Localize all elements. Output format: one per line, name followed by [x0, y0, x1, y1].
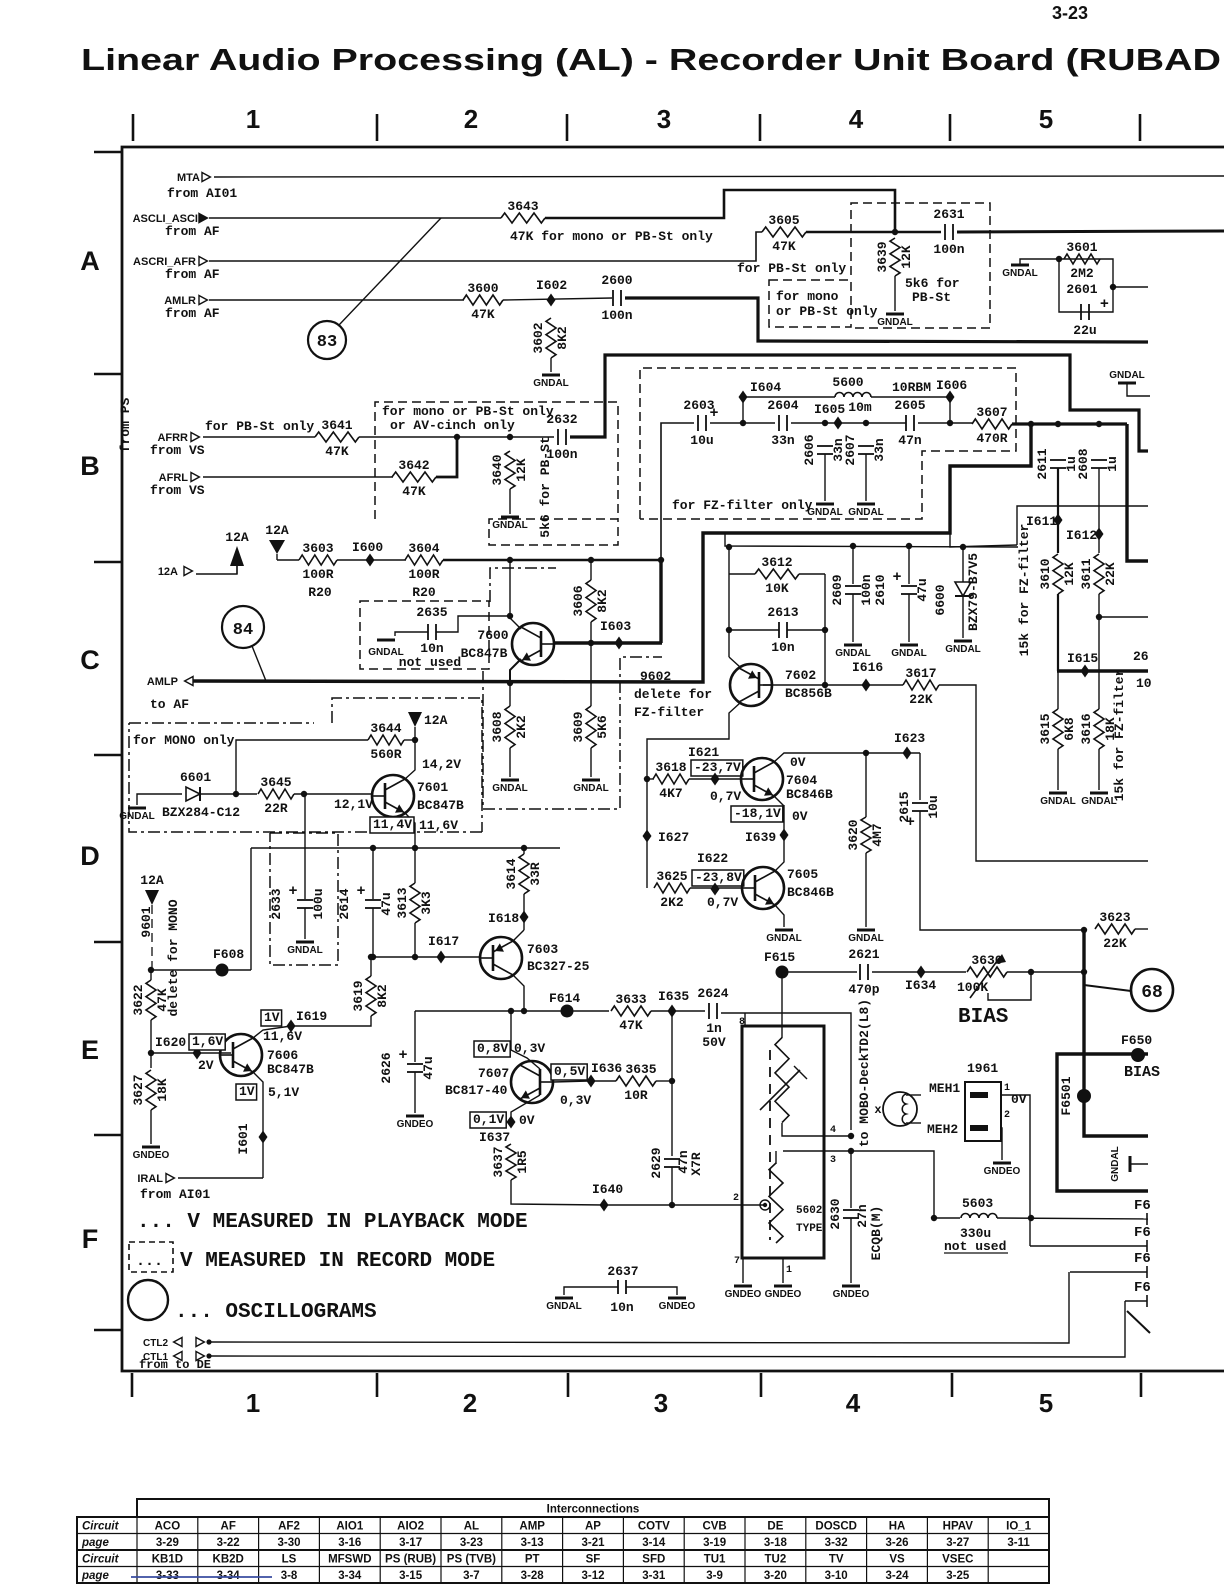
ground GNDAL near 6601 [119, 808, 155, 822]
svg-text:47K: 47K [325, 444, 349, 459]
svg-text:2608: 2608 [1076, 448, 1091, 479]
dashed region for MONO only [129, 722, 314, 724]
svg-text:IRAL: IRAL [137, 1173, 163, 1185]
svg-text:33R: 33R [528, 862, 543, 886]
svg-text:MEH2: MEH2 [927, 1122, 958, 1137]
wire 2637 right [626, 1287, 677, 1295]
svg-text:47K for mono or PB-St only: 47K for mono or PB-St only [510, 229, 713, 244]
svg-text:page: page [81, 1570, 109, 1582]
capacitor 2630 [828, 1198, 859, 1229]
svg-text:GNDAL: GNDAL [1002, 268, 1038, 279]
wire 3616 down [1098, 749, 1100, 790]
wire 2609 down [852, 594, 854, 642]
svg-text:AMLP: AMLP [147, 676, 178, 688]
svg-text:470R: 470R [976, 431, 1007, 446]
svg-text:I634: I634 [905, 978, 936, 993]
capacitor 2609 [830, 574, 874, 605]
ground GNDAL under 2610 [891, 645, 927, 659]
svg-text:47n: 47n [898, 433, 922, 448]
svg-text:PS (RUB): PS (RUB) [385, 1554, 436, 1566]
svg-text:3607: 3607 [976, 405, 1007, 420]
svg-text:I615: I615 [1067, 651, 1098, 666]
svg-text:2M2: 2M2 [1070, 266, 1094, 281]
svg-text:2610: 2610 [873, 574, 888, 605]
wire CTL1 [209, 1301, 1125, 1357]
svg-text:10: 10 [1136, 676, 1152, 691]
svg-text:0V: 0V [1011, 1092, 1027, 1107]
svg-text:47u: 47u [421, 1056, 436, 1079]
svg-text:I604: I604 [750, 380, 781, 395]
svg-text:3637: 3637 [491, 1146, 506, 1177]
svg-text:12A: 12A [225, 530, 249, 545]
wire 6600 leg [962, 547, 964, 582]
wire 3635 to junction [656, 1080, 672, 1082]
svg-text:3643: 3643 [507, 199, 538, 214]
svg-text:3-30: 3-30 [277, 1537, 300, 1549]
svg-text:0V: 0V [790, 755, 806, 770]
wire 7604 collector [774, 753, 866, 762]
supply arrow 12A (9601) [145, 890, 159, 905]
svg-text:GNDEO: GNDEO [659, 1301, 696, 1312]
svg-text:2: 2 [1004, 1110, 1010, 1121]
wire F615 down [781, 972, 783, 1038]
svg-text:MEH1: MEH1 [929, 1081, 960, 1096]
input port MTA [177, 172, 210, 184]
svg-text:F6: F6 [1134, 1280, 1151, 1296]
wire 3644 to 12A [404, 739, 415, 741]
wire 7600 base row [554, 641, 662, 644]
wire 3607 output [1012, 422, 1127, 425]
svg-text:6K8: 6K8 [1062, 717, 1077, 741]
resistor 3644 [368, 721, 404, 762]
node 5603 right [1028, 1215, 1034, 1221]
wire 2635 to 7600 base [436, 616, 510, 632]
ground GNDAL under 3602 [533, 375, 569, 389]
ground GNDEO pin7 [725, 1286, 762, 1300]
wire FZ input lower [659, 560, 662, 643]
svg-text:8K2: 8K2 [595, 589, 610, 613]
capacitor 2621 [848, 947, 879, 997]
svg-text:delete for: delete for [634, 687, 712, 702]
svg-text:3612: 3612 [761, 555, 792, 570]
svg-text:I639: I639 [745, 830, 776, 845]
wire GNDAL to 3601 [1020, 259, 1059, 264]
svg-text:FZ-filter: FZ-filter [634, 705, 704, 720]
wire 2621 to 3630 [872, 971, 966, 973]
wire 3615 down [1057, 749, 1059, 790]
capacitor 2626 [379, 1046, 436, 1084]
svg-text:to AF: to AF [150, 697, 189, 712]
wire 3627 down [150, 1110, 152, 1144]
svg-text:1V: 1V [239, 1084, 255, 1099]
svg-text:47u: 47u [915, 578, 930, 601]
wire 2629 branch [671, 1081, 673, 1156]
dashed region for PB-St only [851, 203, 990, 328]
resistor 3604 [405, 541, 443, 582]
svg-text:1R5: 1R5 [515, 1150, 530, 1174]
wire 3619 to I619 [291, 1016, 371, 1026]
dashed region for FZ-filter only [640, 368, 1016, 519]
svg-text:GNDAL: GNDAL [766, 933, 802, 944]
capacitor 2600 [601, 273, 632, 323]
voltage box 1V (I619) [261, 1010, 282, 1026]
supply arrow 12A for 3644 [408, 712, 422, 727]
svg-text:IO_1: IO_1 [1006, 1521, 1032, 1533]
wire I621 to base [689, 778, 740, 780]
svg-text:DOSCD: DOSCD [815, 1521, 857, 1533]
voltage box 0,8V [474, 1041, 510, 1057]
svg-text:from VS: from VS [150, 483, 205, 498]
node I601 [259, 1131, 268, 1144]
wire 3605 to 2631 [806, 231, 941, 233]
svg-text:BIAS: BIAS [958, 1006, 1008, 1029]
node rail/3614 [521, 845, 527, 851]
svg-text:AIO1: AIO1 [336, 1521, 363, 1533]
node I615 [1067, 651, 1098, 678]
wire 7607 collector riser [510, 1011, 512, 1050]
svg-text:50V: 50V [702, 1035, 726, 1050]
svg-text:GNDEO: GNDEO [833, 1289, 870, 1300]
svg-text:3617: 3617 [905, 666, 936, 681]
svg-text:33n: 33n [872, 438, 887, 462]
svg-text:COTV: COTV [638, 1521, 670, 1533]
wire stub row 3 [1070, 1271, 1147, 1273]
svg-text:I627: I627 [658, 830, 689, 845]
wire 3642 up [436, 437, 457, 477]
svg-text:GNDAL: GNDAL [848, 933, 884, 944]
svg-text:47K: 47K [155, 988, 170, 1012]
voltage box 0,5V [551, 1064, 587, 1080]
transistor 7605 symbol [742, 867, 784, 909]
connector 1961 box [965, 1082, 1001, 1141]
frame border [122, 147, 1224, 1371]
svg-text:I636: I636 [591, 1061, 622, 1076]
node rail/I620 [148, 1050, 154, 1056]
node F614/7603 [521, 1008, 527, 1014]
node 6600 top [960, 544, 966, 550]
ground GNDEO under 1961 [984, 1163, 1021, 1177]
svg-text:GNDAL: GNDAL [835, 648, 871, 659]
capacitor 2631 [933, 207, 964, 257]
node I606 bottom [947, 420, 953, 426]
svg-text:I635: I635 [658, 989, 689, 1004]
node pin2 hatched [760, 1200, 770, 1210]
node I640 [592, 1182, 623, 1212]
node rail/2614 [370, 845, 376, 851]
oscillogram circle 68 [1131, 969, 1173, 1011]
node I617 [428, 934, 459, 964]
svg-text:3-21: 3-21 [581, 1537, 605, 1549]
wire 2630 down [850, 1218, 852, 1283]
wire 3600 to 2600 [503, 298, 612, 300]
node I636 [587, 1075, 596, 1088]
resistor 3614 [504, 854, 543, 894]
svg-text:12A: 12A [265, 523, 289, 538]
svg-text:3-8: 3-8 [281, 1570, 298, 1582]
svg-text:3615: 3615 [1038, 713, 1053, 744]
svg-text:10RBM: 10RBM [892, 380, 931, 395]
svg-text:3635: 3635 [625, 1062, 656, 1077]
svg-text:3613: 3613 [395, 887, 410, 918]
wire 7607 emitter [511, 1095, 540, 1122]
svg-text:for mono: for mono [776, 289, 839, 304]
wire 2629 down [671, 1167, 673, 1205]
svg-text:33n: 33n [771, 433, 795, 448]
node 6601/3644 [233, 791, 239, 797]
svg-text:BIAS: BIAS [1124, 1064, 1160, 1081]
node I604 bottom [740, 420, 746, 426]
svg-text:3-15: 3-15 [399, 1570, 423, 1582]
potentiometer arrow 3630 [970, 957, 1000, 998]
svg-text:11,6V: 11,6V [263, 1029, 302, 1044]
svg-text:I622: I622 [697, 851, 728, 866]
svg-text:7604: 7604 [786, 773, 817, 788]
wire base to I616 [825, 684, 903, 686]
supply arrow 12A down [269, 540, 285, 554]
wire oscillogram 68 pointer [1084, 985, 1131, 991]
svg-text:3620: 3620 [846, 819, 861, 850]
wire 2626 branch [414, 1011, 416, 1062]
wire oscillogram 84 pointer [252, 646, 266, 681]
wire 2613 right [787, 629, 825, 631]
node 3635/I635 [669, 1078, 675, 1084]
svg-text:from AF: from AF [165, 224, 220, 239]
wire F608 row [152, 969, 251, 971]
wire 2615 branch [919, 753, 921, 800]
wire 7607 collector [511, 1050, 540, 1069]
svg-text:AP: AP [585, 1521, 601, 1533]
node 2611 top [1055, 421, 1061, 427]
wire 1961 pin1 [1000, 1095, 1030, 1246]
svg-text:3602: 3602 [531, 322, 546, 353]
ground GNDAL under 3620 [848, 930, 884, 944]
wire 3609 bottom [590, 748, 592, 777]
wire 6601 to 3645 [200, 793, 257, 795]
ground GNDAL right top [1109, 370, 1145, 383]
svg-text:for PB-St only: for PB-St only [737, 261, 846, 276]
svg-text:GNDAL: GNDAL [1109, 370, 1145, 381]
ground GNDEO under 2626 [397, 1116, 434, 1130]
ground GNDAL under 6600 [945, 641, 981, 655]
dashed region 2635 not used [360, 601, 489, 669]
svg-text:GNDAL: GNDAL [877, 317, 913, 328]
node F614/7607 base [508, 1008, 514, 1014]
svg-text:F6: F6 [1134, 1251, 1151, 1267]
svg-text:AIO2: AIO2 [397, 1521, 424, 1533]
resistor 3617 [903, 666, 939, 707]
svg-text:C: C [80, 645, 100, 675]
node I627 [643, 830, 652, 843]
svg-text:1: 1 [1004, 1083, 1010, 1094]
component 5602 head box [742, 1026, 824, 1258]
wire 3635 row [591, 1080, 616, 1082]
node 5603 left [931, 1215, 937, 1221]
wire 7602 emitter [729, 657, 740, 667]
output port AMLP [147, 676, 193, 688]
svg-text:3633: 3633 [615, 992, 646, 1007]
svg-text:3K3: 3K3 [419, 891, 434, 915]
svg-text:3614: 3614 [504, 858, 519, 889]
wire 2610 down [908, 594, 910, 642]
node AMLP/3608 [507, 680, 513, 686]
bottom ruler tick 3 [567, 1373, 570, 1397]
capacitor 2605 [894, 398, 925, 448]
ground GNDAL under 2609 [835, 645, 871, 659]
svg-text:-18,1V: -18,1V [734, 806, 781, 821]
svg-text:2637: 2637 [607, 1264, 638, 1279]
svg-text:0,7V: 0,7V [710, 789, 741, 804]
ground GNDEO pin1 [765, 1286, 802, 1300]
ground GNDEO near 2637 [659, 1298, 696, 1312]
svg-text:BC847B: BC847B [461, 646, 508, 661]
bottom ruler tick 1 [131, 1373, 134, 1397]
svg-text:12A: 12A [424, 713, 448, 728]
stub pin F6 4 [1146, 1295, 1148, 1307]
svg-text:GNDAL: GNDAL [1040, 796, 1076, 807]
wire 3612 row b [799, 573, 825, 575]
svg-text:+: + [399, 1046, 408, 1063]
wire crossing diagonal [1127, 1311, 1150, 1333]
wire 3610 down [1057, 594, 1059, 671]
wire 3623 out [1135, 928, 1148, 930]
wire stub y617 [1099, 616, 1148, 618]
wire rail to F608 [250, 848, 252, 970]
svg-text:LS: LS [282, 1554, 297, 1566]
wire AMLR bus [625, 298, 1148, 342]
svg-text:2V: 2V [198, 1058, 214, 1073]
wire 3618 row [647, 778, 654, 780]
svg-text:3-13: 3-13 [521, 1537, 544, 1549]
node 2601 right [1110, 284, 1116, 290]
svg-text:F6501: F6501 [1059, 1076, 1074, 1115]
resistor 3609 [571, 706, 610, 748]
svg-text:Linear Audio Processing (AL) -: Linear Audio Processing (AL) - Recorder … [81, 42, 1221, 77]
svg-text:0V: 0V [519, 1113, 535, 1128]
ground GNDAL under 3609 [573, 780, 609, 794]
wire FZ input upper [661, 423, 694, 560]
wire 3630 loop [988, 972, 1031, 1000]
svg-text:3606: 3606 [571, 585, 586, 616]
wire 7606 base row [151, 1052, 231, 1054]
svg-text:10n: 10n [420, 641, 444, 656]
node junction 3605/3639 [892, 229, 898, 235]
ground GNDAL under 2607 [848, 504, 884, 518]
svg-text:2: 2 [463, 1388, 477, 1418]
svg-text:2: 2 [733, 1193, 739, 1204]
wire 2631 output [957, 231, 1224, 232]
ground GNDAL under 3640 [492, 517, 528, 531]
wire 7606 emitter [253, 1072, 263, 1178]
svg-text:10R: 10R [624, 1088, 648, 1103]
svg-text:0,3V: 0,3V [560, 1093, 591, 1108]
svg-text:3-12: 3-12 [581, 1570, 604, 1582]
wire 2637 left [564, 1287, 618, 1295]
capacitor 2601 [1081, 304, 1089, 320]
terminal F614 [561, 1005, 574, 1018]
transistor 7600 symbol [512, 623, 554, 665]
potentiometer 5602 upper [775, 1038, 789, 1123]
node 3613/I617 [412, 954, 418, 960]
wire ASCLI to 3605 node [545, 190, 895, 232]
svg-text:+: + [1100, 295, 1109, 312]
svg-text:100K: 100K [957, 980, 988, 995]
svg-text:2614: 2614 [337, 888, 352, 919]
wire 2605 to 3607 [918, 422, 972, 424]
svg-text:GNDEO: GNDEO [133, 1150, 170, 1161]
svg-text:3-26: 3-26 [885, 1537, 908, 1549]
wire AMLP rail [193, 424, 1031, 682]
svg-text:from AI01: from AI01 [167, 186, 237, 201]
svg-text:D: D [80, 841, 100, 871]
svg-text:GNDAL: GNDAL [891, 648, 927, 659]
svg-text:5,1V: 5,1V [268, 1085, 299, 1100]
svg-text:2607: 2607 [843, 434, 858, 465]
svg-text:F614: F614 [549, 991, 580, 1006]
svg-text:3-34: 3-34 [338, 1570, 362, 1582]
potentiometer 5602 upper arrow [760, 1070, 800, 1110]
node I603 [600, 619, 631, 650]
svg-text:I605: I605 [814, 402, 845, 417]
svg-text:CVB: CVB [702, 1521, 726, 1533]
node 3606 bottom [588, 640, 594, 646]
resistor 3625 [654, 869, 690, 910]
dashed region for mono or PB-St only [769, 280, 851, 327]
svg-text:22u: 22u [1073, 323, 1096, 338]
wire IRAL [178, 1177, 263, 1179]
svg-text:2621: 2621 [848, 947, 879, 962]
wire 3617 output [939, 685, 1148, 861]
svg-text:... V MEASURED IN PLAYBACK MOD: ... V MEASURED IN PLAYBACK MODE [137, 1211, 528, 1234]
svg-text:...: ... [136, 1253, 163, 1270]
wire GNDAL stub right [1127, 383, 1150, 396]
svg-text:3-19: 3-19 [703, 1537, 726, 1549]
input port 12A [158, 566, 193, 578]
wire 11,6V rail [251, 847, 560, 849]
wire 5603 row [934, 1217, 960, 1219]
svg-text:VS: VS [889, 1554, 905, 1566]
head contact MEH2 [970, 1125, 988, 1131]
svg-text:TU2: TU2 [765, 1554, 787, 1566]
resistor 3608 [490, 706, 529, 748]
wire 2630 branch [850, 1151, 852, 1208]
svg-text:to MOBO-DeckTD2(L8): to MOBO-DeckTD2(L8) [857, 999, 872, 1147]
svg-text:A: A [80, 246, 100, 276]
resistor 3615 [1038, 709, 1077, 749]
input port ASCLI_ASCI [133, 213, 208, 225]
bottom ruler tick 2 [376, 1373, 379, 1397]
svg-text:3619: 3619 [351, 980, 366, 1011]
dashed line 5602 [769, 1050, 771, 1240]
svg-text:3-18: 3-18 [764, 1537, 788, 1549]
svg-text:22R: 22R [264, 801, 288, 816]
wire 7604 emitter [774, 796, 784, 806]
diode 6601 [186, 787, 200, 801]
svg-text:12A: 12A [140, 873, 164, 888]
wire 7602 collector [647, 703, 740, 779]
svg-text:I603: I603 [600, 619, 631, 634]
wire 3613 top [414, 848, 416, 883]
svg-text:5: 5 [1039, 104, 1053, 134]
wire 3641 to 2632 [359, 436, 554, 438]
svg-text:F615: F615 [764, 950, 795, 965]
svg-text:9602: 9602 [640, 669, 671, 684]
top ruler tick 6 [1139, 114, 1142, 141]
wire stub row 2 [1030, 1245, 1147, 1247]
wire 3620 down [865, 853, 867, 927]
node 2609 top [850, 543, 856, 549]
svg-text:for mono or PB-St only: for mono or PB-St only [382, 404, 554, 419]
svg-text:2600: 2600 [601, 273, 632, 288]
